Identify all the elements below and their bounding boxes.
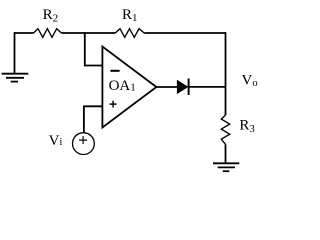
wire: diode cathode to output rail — [189, 86, 226, 88]
wire: top-left segment from ground riser to R2 — [15, 32, 34, 34]
op-amp OA1 triangle — [102, 47, 156, 128]
resistor R1 — [115, 29, 144, 38]
source Vi (circle with plus) — [73, 133, 95, 155]
wire: right rail from top corner down to R3 — [225, 32, 227, 115]
wire: left ground riser — [14, 32, 16, 73]
diode D1 cathode bar — [188, 79, 190, 96]
wire: inverting-input drop from junction — [85, 32, 103, 65]
wire: R1 to top-right corner — [144, 32, 225, 34]
wire: R2 to R1 (through inverting junction) — [62, 32, 116, 34]
wire: op-amp output to diode anode — [156, 86, 177, 88]
resistor R3 — [221, 115, 229, 144]
op-amp inverting pin marker (minus) — [110, 70, 119, 72]
diode D1 (anode triangle) — [177, 81, 187, 94]
ground (left) — [2, 74, 29, 82]
ground (right, below R3) — [213, 163, 239, 171]
wire: non-inverting input horizontal — [84, 106, 103, 133]
op-amp non-inverting pin marker (plus) — [110, 101, 117, 108]
wire: R3 to ground — [225, 144, 227, 163]
resistor R2 — [34, 29, 62, 38]
